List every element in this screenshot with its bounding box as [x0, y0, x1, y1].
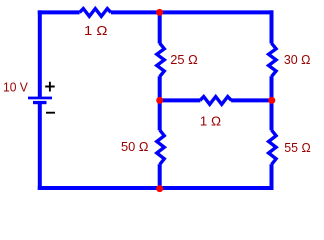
svg-text:30 Ω: 30 Ω	[284, 52, 311, 67]
svg-text:25 Ω: 25 Ω	[170, 52, 198, 67]
svg-text:50 Ω: 50 Ω	[121, 139, 149, 154]
svg-text:1 Ω: 1 Ω	[200, 113, 222, 128]
svg-text:1 Ω: 1 Ω	[84, 23, 108, 38]
svg-text:10 V: 10 V	[3, 79, 28, 94]
svg-text:55 Ω: 55 Ω	[284, 140, 311, 155]
